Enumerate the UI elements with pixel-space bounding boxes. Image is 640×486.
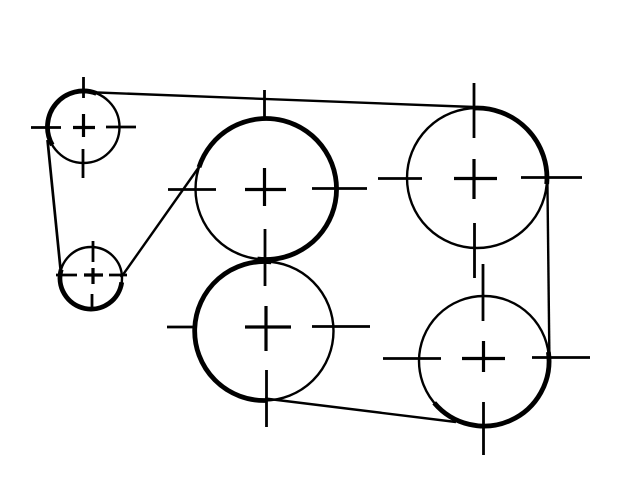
pulley C (center-top) outline [196, 119, 337, 260]
centerline pulley D horizontal [167, 325, 370, 328]
belt wrap arc on pulley A [47, 91, 96, 145]
belt segment E to F (right run) [547, 181, 549, 358]
centerline pulley A horizontal [31, 126, 136, 129]
belt wrap arc on pulley B [60, 270, 122, 310]
belt wrap arc on pulley C [199, 119, 337, 260]
centerline pulley F horizontal [383, 358, 590, 359]
centerline pulley D vertical [264, 306, 268, 427]
belt segment F to D (bottom run) [265, 399, 456, 423]
centerline pulley E horizontal [378, 178, 582, 179]
belt wrap arc on pulley E [473, 108, 547, 184]
belt wrap arc on pulley F [434, 352, 549, 426]
belt segment C to B (diagonal run) [121, 167, 199, 278]
belt segment B to A (left run) [48, 140, 61, 269]
centerline pulley B horizontal [56, 274, 127, 277]
centerline pulley A vertical [82, 77, 85, 178]
pulley D (center-bottom crankshaft) outline [195, 262, 334, 401]
centerline pulley F vertical [482, 264, 485, 455]
pulley E (top-right) outline [407, 108, 547, 248]
centerline pulley B vertical [92, 241, 93, 311]
pulley F (bottom-right) outline [419, 296, 549, 426]
centerline pulley C horizontal [168, 189, 367, 190]
centerline pulley C vertical [263, 90, 266, 286]
pulley B (lower-left tensioner) outline [60, 247, 122, 309]
centerline pulley E vertical [473, 83, 476, 278]
belt segment A to E (top run) [85, 92, 474, 107]
pulley A (top-left idler) outline [48, 91, 120, 163]
belt wrap arc on pulley D [195, 262, 272, 401]
